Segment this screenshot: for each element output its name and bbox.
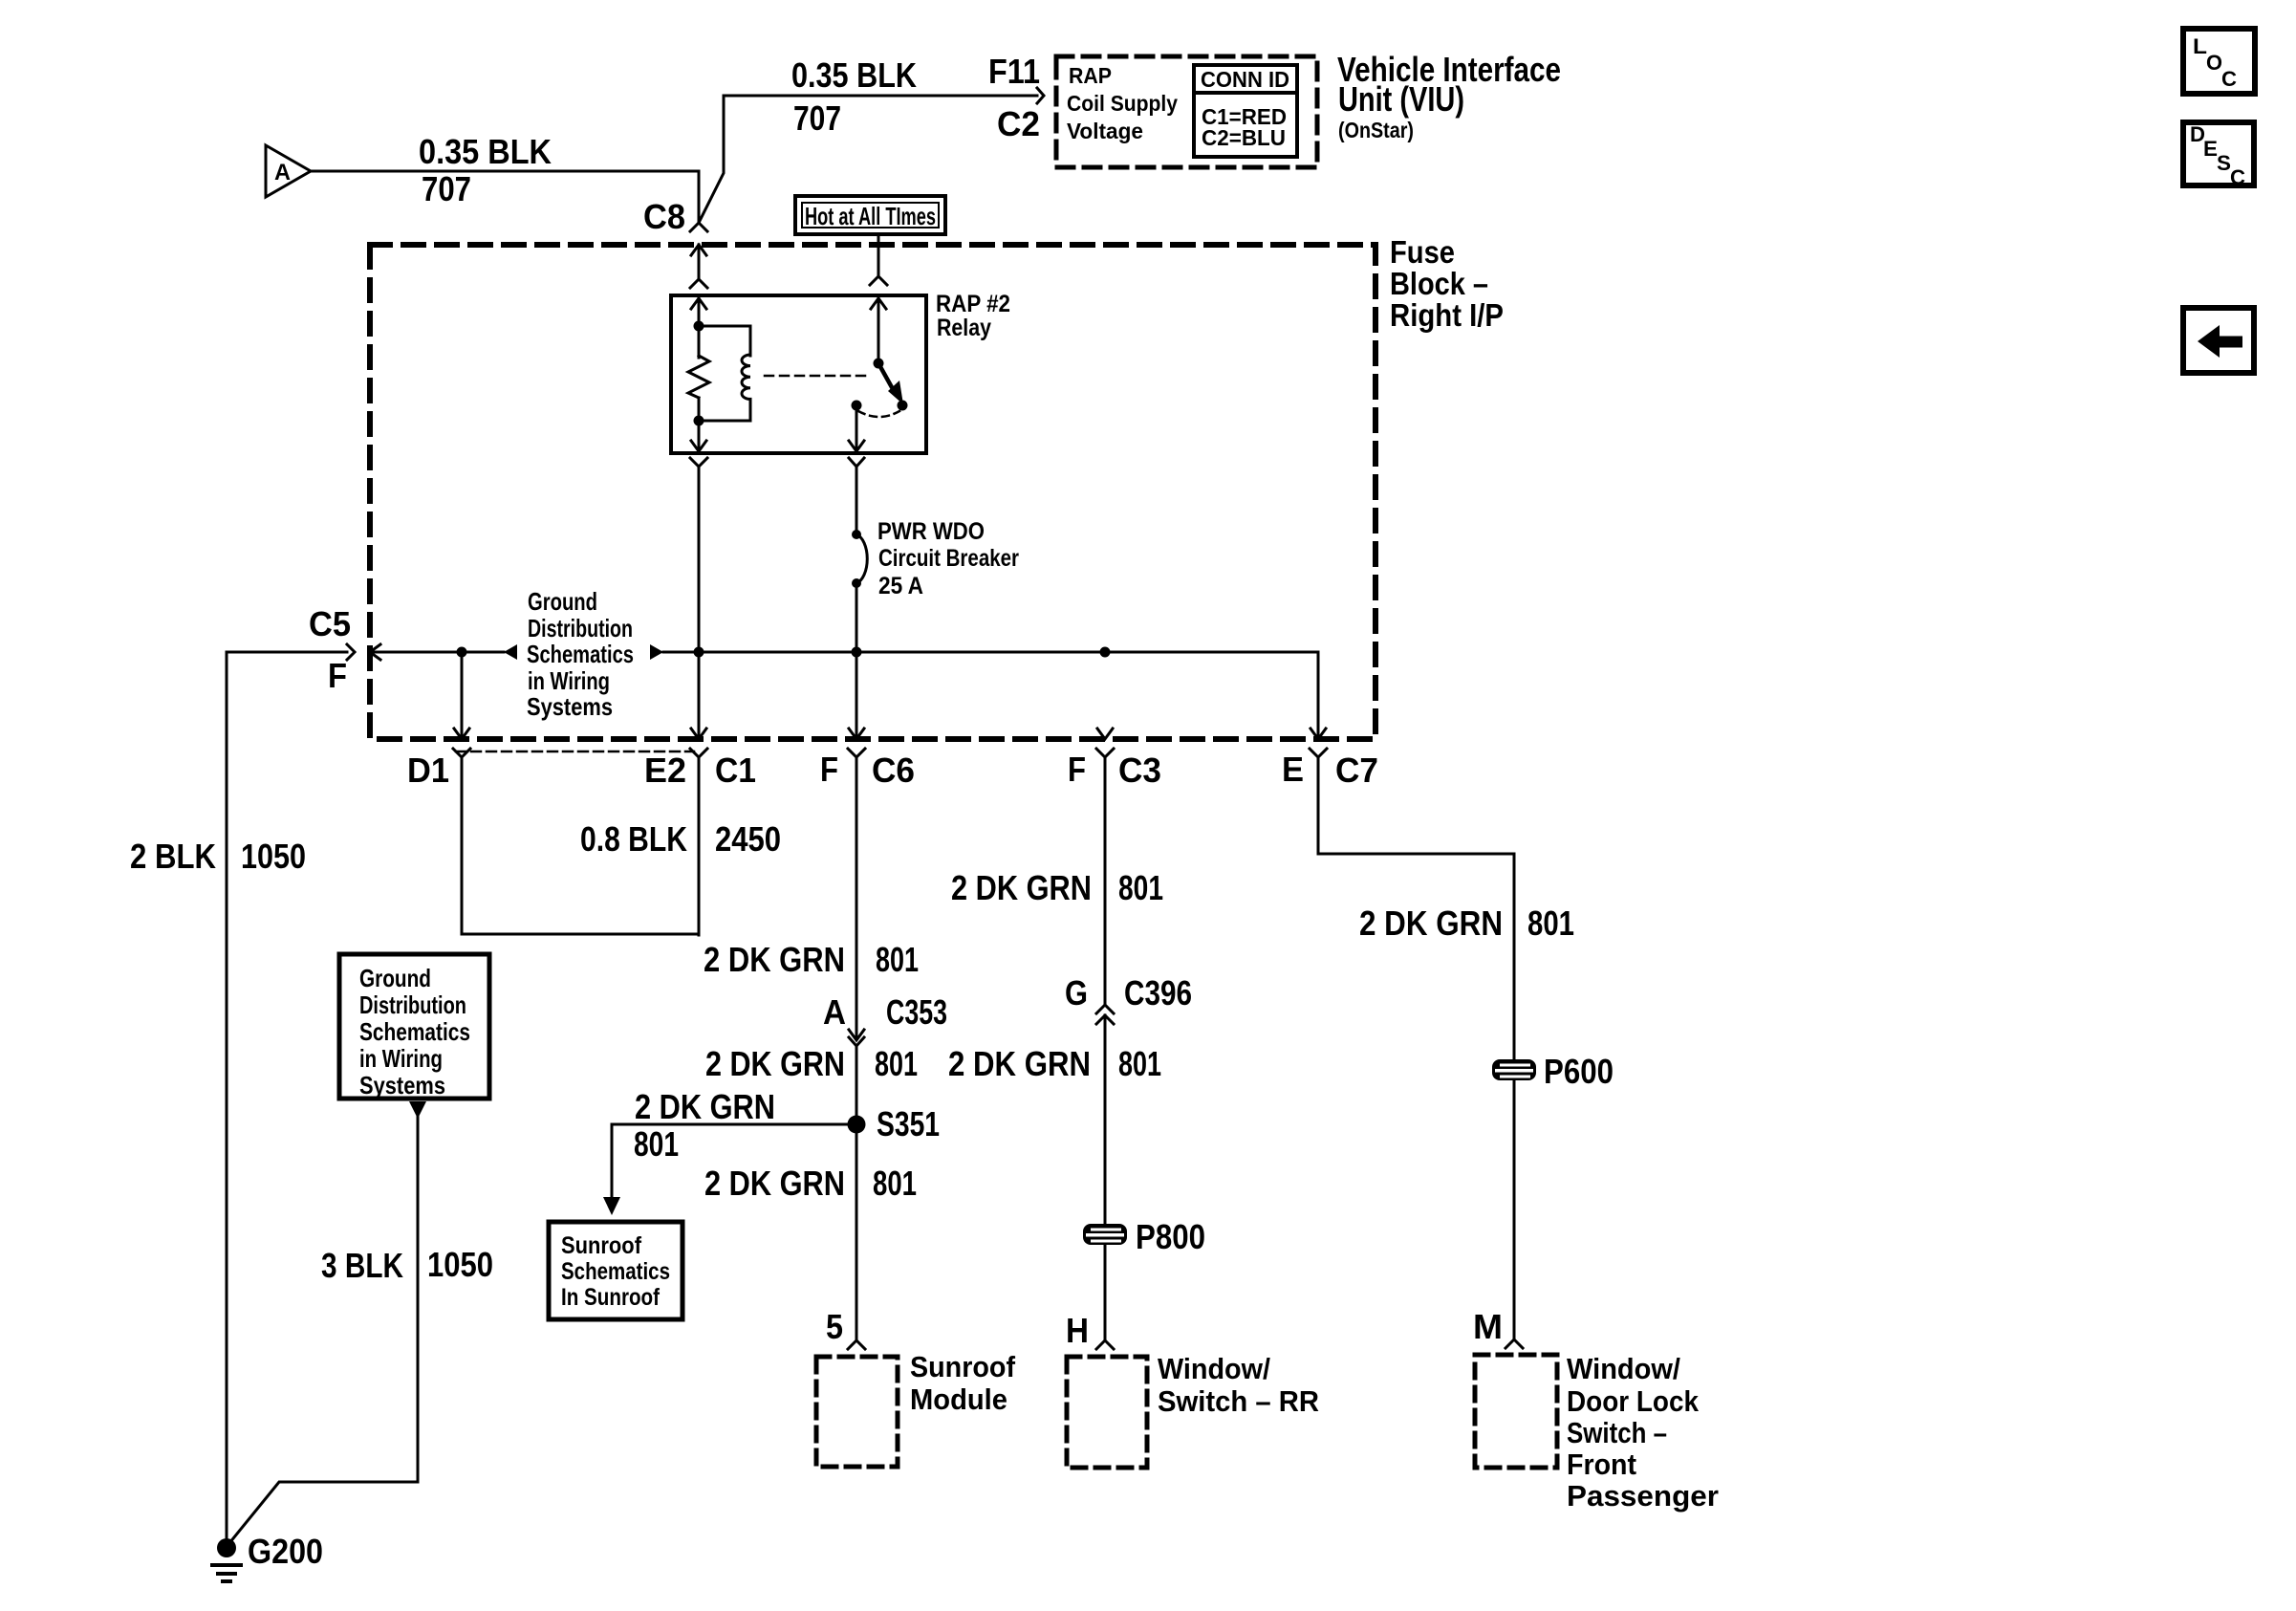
svg-text:C2=BLU: C2=BLU: [1202, 125, 1286, 150]
svg-text:C: C: [2221, 67, 2237, 91]
circuit breaker PWR WDO: [852, 530, 867, 588]
relay coil top junction: [694, 321, 704, 332]
grommet P600: [1492, 1052, 1614, 1091]
wire C3 column mid: [1104, 1015, 1107, 1224]
svg-text:Sunroof: Sunroof: [561, 1232, 642, 1259]
svg-text:3 BLK: 3 BLK: [321, 1246, 403, 1285]
svg-text:Systems: Systems: [359, 1071, 445, 1099]
svg-text:Switch – RR: Switch – RR: [1158, 1384, 1319, 1418]
svg-text:Ground: Ground: [528, 587, 597, 616]
svg-text:801: 801: [875, 1044, 918, 1083]
branch wire to sunroof schematics: [603, 1124, 856, 1215]
sunroof module dashed box: [816, 1357, 898, 1467]
wire C7 column: [1318, 757, 1514, 1059]
svg-text:Voltage: Voltage: [1067, 119, 1143, 143]
ground bus junction at D1: [457, 647, 467, 658]
svg-text:801: 801: [634, 1124, 679, 1164]
relay switch output connector: [849, 458, 864, 534]
wire C6 column mid: [856, 1046, 858, 1124]
pin F exit arrow at fuse block: [370, 644, 462, 660]
svg-text:801: 801: [873, 1164, 917, 1203]
wire to VIU F11: [700, 96, 1037, 221]
svg-text:C2: C2: [997, 104, 1040, 143]
svg-text:0.35 BLK: 0.35 BLK: [419, 132, 552, 171]
svg-text:1050: 1050: [241, 837, 306, 876]
svg-text:F: F: [820, 750, 838, 789]
sunroof schematics note box: [549, 1222, 682, 1319]
svg-text:Passenger: Passenger: [1567, 1479, 1719, 1513]
svg-text:P600: P600: [1544, 1052, 1614, 1091]
svg-text:L: L: [2193, 34, 2207, 58]
svg-text:E: E: [2203, 137, 2218, 161]
svg-text:Hot at All TImes: Hot at All TImes: [805, 202, 936, 230]
pin H connector at RR switch: [1066, 1311, 1114, 1350]
svg-text:C6: C6: [872, 751, 915, 790]
relay coil bottom junction: [694, 416, 704, 426]
svg-text:Unit (VIU): Unit (VIU): [1338, 79, 1464, 119]
DESC nav box: [2183, 122, 2254, 189]
svg-text:Relay: Relay: [937, 315, 991, 341]
wire D1 column: [461, 652, 464, 739]
ground G200: [212, 1532, 323, 1581]
svg-text:S: S: [2217, 151, 2231, 175]
svg-text:Door Lock: Door Lock: [1567, 1384, 1700, 1418]
svg-text:Distribution: Distribution: [359, 991, 466, 1019]
svg-text:Window/: Window/: [1158, 1352, 1270, 1385]
wire breaker to bus: [856, 583, 858, 739]
relay coil linkage dashed line: [765, 375, 870, 378]
svg-text:Systems: Systems: [527, 692, 613, 721]
off-page triangle right: [650, 644, 663, 660]
relay switch contact (NO): [898, 401, 908, 411]
connector C5: [309, 604, 355, 695]
svg-text:2 DK GRN: 2 DK GRN: [704, 940, 845, 979]
off-page triangle left: [504, 644, 517, 660]
pin 5 connector at sunroof module: [826, 1307, 865, 1349]
svg-text:801: 801: [1118, 868, 1163, 907]
label Fuse Block - Right I/P: [1390, 234, 1504, 333]
svg-text:Window/: Window/: [1567, 1352, 1680, 1385]
wire 3 BLK from note box to ground: [229, 1101, 426, 1543]
svg-text:Coil Supply: Coil Supply: [1067, 91, 1178, 116]
svg-text:CONN ID: CONN ID: [1201, 67, 1289, 92]
wire C3 column upper: [1104, 757, 1107, 1005]
CONN ID table: [1194, 65, 1297, 157]
svg-text:Front: Front: [1567, 1448, 1636, 1481]
window door lock switch dashed box: [1475, 1355, 1557, 1468]
pin F/C6 exit arrow: [849, 729, 864, 739]
svg-text:C353: C353: [886, 992, 947, 1032]
pin E2 exit arrow: [691, 729, 706, 739]
svg-text:801: 801: [1527, 903, 1574, 943]
wire C7 column lower: [1513, 1080, 1516, 1338]
svg-text:C5: C5: [309, 604, 351, 643]
svg-text:Schematics: Schematics: [561, 1258, 670, 1285]
svg-text:5: 5: [826, 1307, 843, 1346]
svg-text:707: 707: [793, 98, 841, 138]
svg-text:2 DK GRN: 2 DK GRN: [705, 1044, 845, 1083]
svg-text:F: F: [1068, 750, 1086, 789]
label Vehicle Interface Unit (VIU): [1337, 50, 1561, 142]
svg-text:C: C: [2230, 165, 2245, 189]
relay switch output arrow: [849, 405, 864, 451]
relay switch pivot: [874, 359, 884, 369]
wire E2/C1 ground: [698, 757, 701, 935]
svg-text:D1: D1: [407, 751, 449, 790]
label Window/Switch - RR: [1158, 1352, 1319, 1418]
Hot at All Times callout box: [795, 196, 945, 234]
connector D1 fork: [407, 749, 470, 790]
svg-text:A: A: [274, 160, 291, 185]
svg-text:Circuit Breaker: Circuit Breaker: [878, 545, 1019, 572]
svg-text:H: H: [1066, 1311, 1089, 1350]
svg-text:O: O: [2206, 51, 2222, 75]
svg-text:C1: C1: [715, 751, 756, 790]
svg-text:2 DK GRN: 2 DK GRN: [704, 1164, 845, 1203]
svg-text:P800: P800: [1136, 1217, 1205, 1256]
svg-text:RAP: RAP: [1069, 63, 1112, 88]
wire C3 column lower: [1104, 1245, 1107, 1339]
wire D1 ground loop: [462, 757, 696, 934]
power bus wire: [699, 652, 1318, 739]
svg-text:A: A: [823, 992, 846, 1032]
label Window/Door Lock Switch - Front Passenger: [1567, 1352, 1719, 1513]
svg-text:2 DK GRN: 2 DK GRN: [1359, 903, 1503, 943]
VIU dashed box: [1056, 56, 1317, 167]
svg-text:in Wiring: in Wiring: [359, 1044, 443, 1073]
svg-text:Schematics: Schematics: [359, 1017, 470, 1046]
bus junction C3 column: [1100, 647, 1111, 658]
svg-text:Schematics: Schematics: [527, 640, 634, 668]
svg-text:2450: 2450: [715, 819, 781, 859]
svg-text:Switch –: Switch –: [1567, 1416, 1667, 1449]
wire from A to C8: [311, 171, 699, 221]
svg-text:Distribution: Distribution: [528, 614, 633, 642]
connector C8: [643, 197, 707, 236]
svg-text:E: E: [1282, 750, 1304, 789]
bus junction breaker column: [852, 647, 862, 658]
svg-text:0.8 BLK: 0.8 BLK: [580, 819, 687, 859]
svg-text:C3: C3: [1118, 751, 1161, 790]
label Sunroof Module: [910, 1350, 1016, 1416]
splice S351: [848, 1104, 941, 1143]
ground wire C5 to G200: [227, 652, 347, 1541]
svg-text:2 DK GRN: 2 DK GRN: [951, 868, 1092, 907]
relay RAP#2 box: [671, 295, 926, 453]
connector C2 fork at VIU: [1037, 88, 1044, 103]
relay switch input arrow: [871, 298, 886, 363]
svg-text:Block –: Block –: [1390, 266, 1488, 301]
svg-text:801: 801: [1118, 1044, 1161, 1083]
relay coil output arrow: [691, 421, 706, 451]
svg-text:C8: C8: [643, 197, 685, 236]
svg-text:F: F: [328, 656, 347, 695]
svg-text:PWR WDO: PWR WDO: [877, 518, 985, 545]
bus junction coil column: [694, 647, 704, 658]
svg-text:in Wiring: in Wiring: [528, 666, 610, 695]
connector triangle A: [266, 145, 311, 197]
connector A/C353: [823, 992, 947, 1046]
svg-text:M: M: [1473, 1307, 1503, 1346]
relay coil output connector: [690, 458, 707, 739]
svg-text:(OnStar): (OnStar): [1338, 118, 1414, 142]
connector E/C7 fork: [1282, 749, 1378, 790]
svg-text:2 DK GRN: 2 DK GRN: [948, 1044, 1091, 1083]
label Ground Distribution Schematics in Wiring Systems (bus): [527, 587, 634, 721]
svg-text:G: G: [1065, 973, 1088, 1012]
svg-text:Fuse: Fuse: [1390, 234, 1455, 270]
pin C8 entry into fuse block: [690, 245, 707, 288]
svg-text:RAP #2: RAP #2: [936, 291, 1010, 317]
connector E2/C1 fork: [644, 749, 756, 790]
label RAP #2 Relay: [936, 291, 1010, 341]
connector F/C3 fork: [1068, 749, 1161, 790]
relay resistor: [688, 326, 709, 421]
wire Hot-at-All-Times feed: [870, 234, 887, 285]
svg-text:Module: Module: [910, 1382, 1007, 1416]
LOC nav box: [2183, 29, 2255, 94]
svg-text:2 DK GRN: 2 DK GRN: [635, 1087, 775, 1126]
relay switch arm: [878, 363, 903, 404]
svg-text:Sunroof: Sunroof: [910, 1350, 1016, 1383]
relay coil winding: [699, 326, 750, 421]
svg-text:C396: C396: [1124, 973, 1192, 1012]
svg-text:F11: F11: [988, 52, 1040, 91]
connector G/C396: [1065, 973, 1192, 1024]
connector F/C6 fork: [820, 749, 915, 790]
connector C1 dashed gang line: [456, 751, 694, 753]
svg-text:G200: G200: [248, 1532, 323, 1571]
wire bus to left triangle: [462, 651, 504, 654]
svg-text:C7: C7: [1335, 751, 1378, 790]
relay switch contact (output): [852, 401, 862, 411]
wire C6 column upper: [856, 757, 858, 1036]
svg-text:0.35 BLK: 0.35 BLK: [791, 55, 917, 95]
pin D1 exit arrow: [454, 729, 469, 739]
window switch RR dashed box: [1067, 1357, 1147, 1468]
svg-text:S351: S351: [877, 1104, 940, 1143]
relay coil pin arrow: [691, 298, 706, 326]
back-arrow nav box: [2183, 308, 2254, 373]
wire triangle to coil column: [663, 651, 699, 654]
svg-text:Ground: Ground: [359, 964, 431, 992]
grommet P800: [1083, 1217, 1205, 1256]
wire C6 column lower: [856, 1124, 858, 1339]
relay linkage dashed arc: [858, 411, 899, 417]
svg-text:2 BLK: 2 BLK: [130, 837, 216, 876]
svg-text:E2: E2: [644, 751, 686, 790]
svg-text:707: 707: [422, 169, 471, 208]
pin F/C3 exit arrow: [1097, 729, 1113, 739]
ground distribution note box: [339, 954, 489, 1099]
label PWR WDO Circuit Breaker 25 A: [877, 518, 1019, 599]
svg-text:801: 801: [876, 940, 919, 979]
svg-text:25 A: 25 A: [878, 573, 923, 599]
svg-text:Right I/P: Right I/P: [1390, 297, 1504, 333]
svg-text:1050: 1050: [427, 1245, 493, 1284]
fuse block dashed box: [370, 245, 1375, 739]
pin M connector at door lock switch: [1473, 1307, 1523, 1348]
pin E/C7 exit arrow: [1310, 729, 1326, 739]
svg-text:In Sunroof: In Sunroof: [561, 1284, 661, 1311]
